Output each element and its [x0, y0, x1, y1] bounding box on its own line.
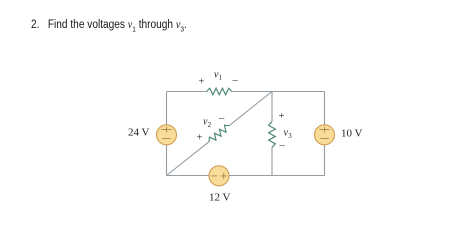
svg-text:12 V: 12 V	[209, 192, 231, 204]
svg-text:–: –	[279, 140, 286, 151]
svg-text:2: 2	[208, 121, 212, 129]
svg-text:+: +	[279, 111, 285, 122]
svg-text:1: 1	[219, 74, 223, 82]
svg-text:10 V: 10 V	[341, 127, 363, 139]
svg-text:–: –	[218, 113, 225, 124]
svg-text:+: +	[199, 77, 205, 88]
svg-text:24 V: 24 V	[128, 127, 150, 139]
svg-text:+: +	[197, 133, 203, 144]
svg-text:3: 3	[288, 132, 292, 140]
svg-text:–: –	[232, 75, 239, 86]
